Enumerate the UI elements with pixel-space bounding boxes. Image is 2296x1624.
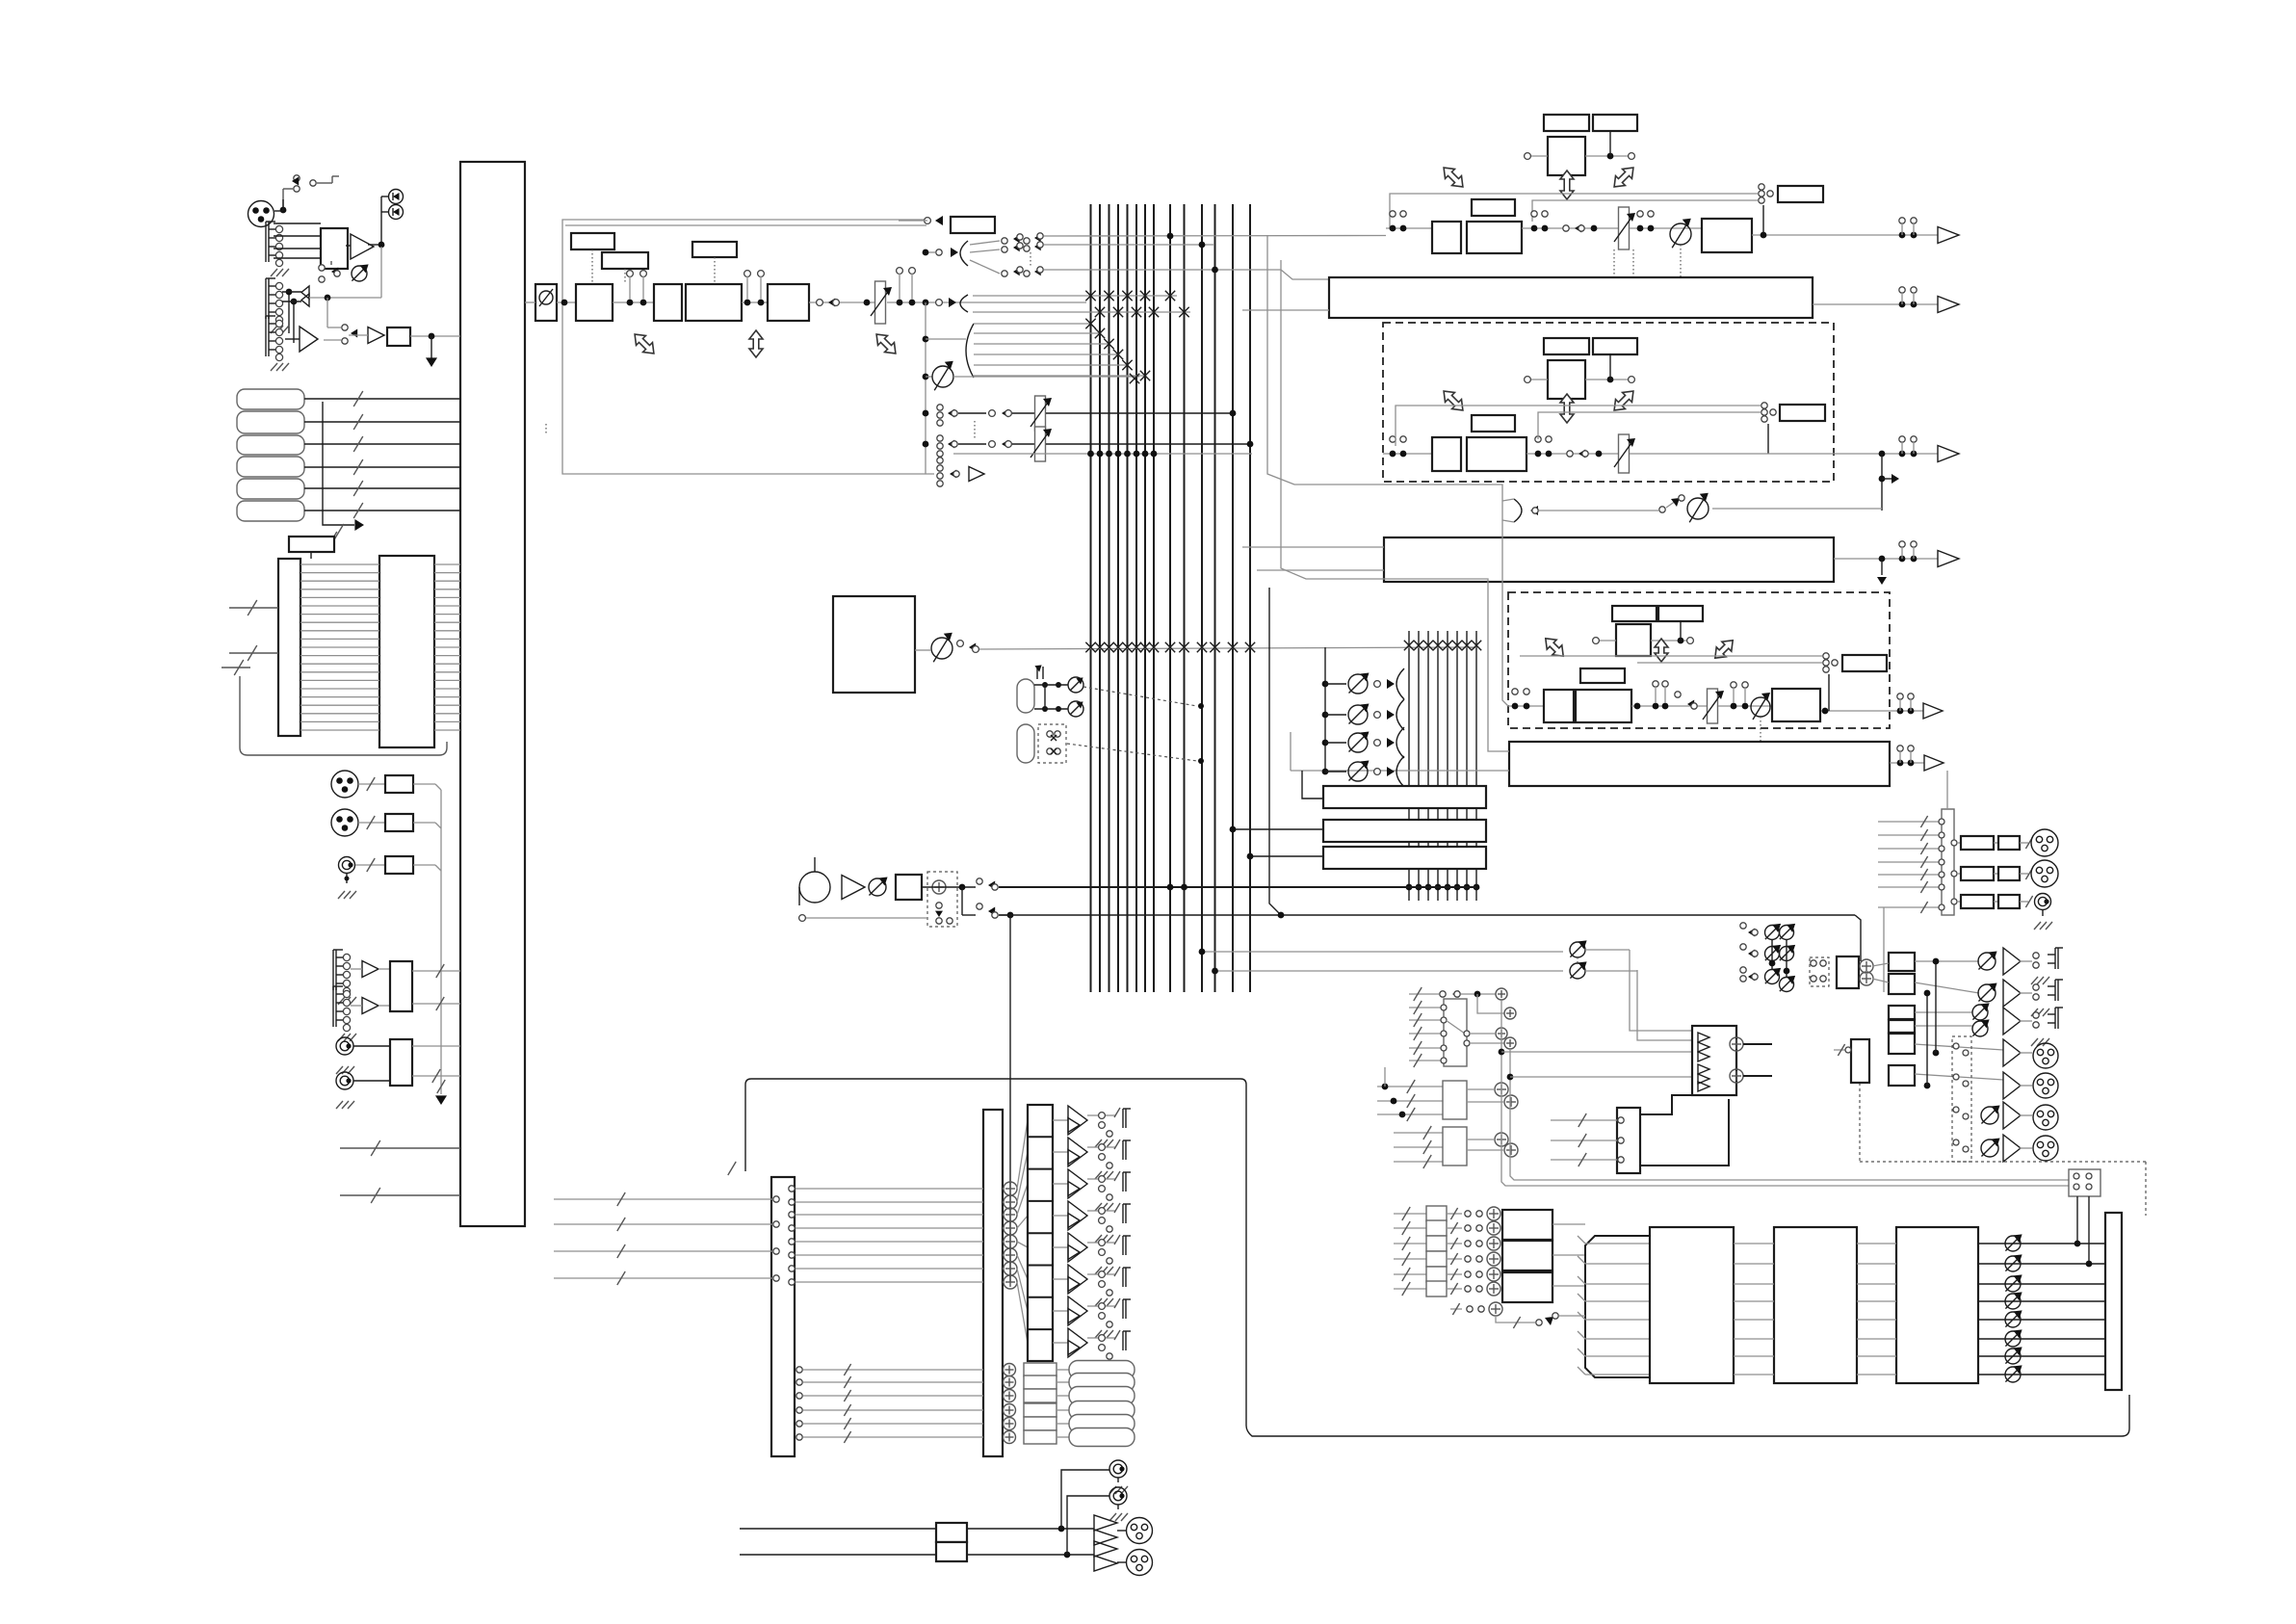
ST phase [1670, 219, 1691, 279]
box U12 (DYN) [768, 284, 809, 321]
talkback mic [799, 857, 830, 905]
box U11 (EQ) [686, 284, 742, 321]
chain c1 [613, 271, 654, 306]
ctrl out C [1972, 1003, 2063, 1046]
LB1 amp [1938, 297, 1959, 313]
tb switch2 [962, 887, 1013, 918]
box U3 (clock) [289, 537, 334, 559]
aes out row 3 [1951, 894, 2052, 930]
HA box U1 (head amp) [321, 228, 348, 269]
tb box U14 [896, 875, 922, 900]
tb dashed box [927, 872, 957, 927]
geq outputs [1978, 1234, 2105, 1382]
st out L [2003, 1039, 2058, 1068]
LB2 inputs [1242, 547, 1384, 570]
LB3 amp [1924, 755, 1944, 771]
LED D1 [381, 190, 404, 204]
mon knobs [1570, 940, 1692, 1040]
mon out R [1981, 1135, 2058, 1162]
aux trunk [1324, 647, 1326, 772]
box U7 [390, 1039, 412, 1086]
arrow to ground [426, 336, 437, 367]
ST post [1630, 211, 1702, 232]
matrix out wires [1743, 1044, 1772, 1076]
drv B [1094, 1541, 1153, 1576]
ellipsis dots [546, 421, 975, 438]
master meter taps [1390, 194, 1758, 228]
osc knob VR3 [915, 633, 1476, 663]
wrap path [728, 1079, 2129, 1436]
wire bundle U4-U5 and U5-bus [300, 564, 460, 730]
dbl arrow eq2 [749, 330, 763, 357]
channel frame [562, 220, 934, 474]
stadium M1 [1017, 679, 1034, 713]
chain c4 [887, 268, 1086, 307]
LB3 out [1890, 746, 1924, 767]
bus diagonal jogs [1267, 235, 1509, 751]
osc X crossings [1085, 641, 1481, 652]
up arrows [1034, 665, 1043, 679]
input jack J4 [266, 316, 289, 371]
DG2 chain [1508, 668, 1772, 723]
CS1 inputs [554, 1192, 779, 1285]
bus feed wire 471 [953, 451, 1252, 458]
slash wires into U4 [229, 600, 278, 661]
long box LB1 (ST bus) [1329, 277, 1813, 318]
gain knob VR1 [352, 264, 369, 281]
ST meter box [1759, 184, 1823, 235]
DG1 header [1439, 338, 1638, 423]
narrow box U18 [983, 1110, 1003, 1456]
tb bus dots [1167, 884, 1187, 891]
wire return top [565, 224, 926, 226]
DG1 chain [1383, 415, 1620, 471]
pan bracket [960, 295, 968, 312]
LED D2 [378, 196, 404, 248]
LB1 out [1813, 287, 1938, 308]
digital input modules (rounded blocks) [237, 389, 304, 521]
phase box U8 [525, 284, 576, 321]
box U9 (HPF) [576, 284, 613, 321]
label box B3 [692, 242, 737, 284]
aes down wire [1883, 907, 1885, 992]
DG2 out [1821, 694, 1923, 715]
tb knob [869, 877, 888, 896]
DG1 sub arrow [1879, 454, 1899, 511]
wires rounded blocks to bus [304, 391, 460, 518]
amp A3 [285, 327, 318, 352]
bus input wire A [340, 1140, 460, 1156]
geq switch box [2069, 1169, 2100, 1264]
aes strip CN3 [1942, 771, 1954, 915]
phones wires2 [967, 1526, 1094, 1559]
phase knob VR2 [926, 361, 1139, 391]
st out R [2003, 1072, 2058, 1099]
wires U7 to bus [412, 1046, 460, 1083]
sel out verticals [1499, 1001, 2088, 1186]
label box B2 [602, 252, 648, 284]
dashed link [1860, 1083, 2146, 1216]
big box U5 (ADC/DSP IF) [379, 556, 434, 747]
aux master row 4 [1322, 756, 1404, 787]
pan L wire [973, 291, 1177, 301]
DG2 phase [1751, 693, 1770, 742]
aes strip inputs [1878, 816, 1944, 913]
LB3 inputs [1291, 732, 1509, 771]
geq dots [2074, 1241, 2093, 1268]
ST out wire [1752, 218, 1938, 239]
wire HA out [346, 245, 381, 246]
stacked box SB2 [1230, 820, 1486, 842]
box U13 (OSC) [833, 596, 915, 693]
ctrl out B [1978, 980, 2063, 1016]
DG2 amp [1923, 703, 1943, 719]
DG1 amp [1938, 446, 1959, 462]
tb line2 [799, 915, 927, 922]
wire U2 to bus [410, 333, 460, 340]
GEQ input rows [1394, 1206, 1500, 1297]
mon dist boxes [1889, 953, 1915, 1086]
wires U6 to bus [412, 964, 460, 1010]
mix bus lines (14 vertical bus wires) [1091, 204, 1251, 992]
amp pair A2 [282, 286, 309, 306]
aux master row 2 [1322, 699, 1404, 730]
DG1 out [1630, 436, 1938, 458]
fader F1 [871, 281, 892, 324]
wrap wire (return path) [222, 660, 447, 755]
jack pair J6 [333, 986, 390, 1041]
RCA input J7 [336, 1037, 390, 1074]
DG2 header [1541, 606, 1737, 663]
aux bus group (8 vertical wires) [1406, 631, 1480, 901]
meter rows [796, 1361, 1135, 1447]
phones boxes [936, 1523, 967, 1561]
DG1 fader [1614, 434, 1635, 473]
stacked box SB1 [1302, 771, 1486, 808]
meter knob2 [1034, 685, 1083, 717]
aux send row y461 [937, 427, 1254, 461]
ST box U15 [1702, 219, 1752, 252]
connector strip CS1 [771, 1177, 795, 1456]
long box LB3 [1509, 742, 1890, 786]
GEQ io boxes [1502, 1210, 1585, 1302]
narrow box U4 (mux) [278, 559, 300, 736]
mon wires [1872, 961, 2003, 1080]
box U6 [390, 961, 412, 1011]
amp A1 [351, 234, 374, 259]
tb down trunk [1009, 915, 1011, 1282]
ST out amp [1938, 227, 1959, 244]
geq interconnect [1734, 1244, 1896, 1375]
aux fan wires [974, 319, 1150, 380]
dashed routes [1067, 687, 1204, 764]
switch S1 (pad) [280, 175, 339, 214]
box U2 (AD) [387, 327, 410, 346]
dbl arrow eq [630, 329, 659, 358]
bus input wire B [340, 1188, 460, 1203]
input jack J2 (line) [266, 222, 289, 276]
aux send row y429 [937, 396, 1237, 431]
aes out row 1 [1951, 829, 2058, 856]
meter knob1 [1034, 677, 1083, 693]
box U10 (ATT) [654, 284, 682, 321]
DG1 feedback [1502, 493, 1882, 523]
chain c3 [809, 299, 874, 307]
sw group top [1002, 233, 1386, 279]
pan R wire [973, 307, 1190, 317]
selector SEL2 [1377, 1067, 1518, 1121]
wire J3 to node [309, 247, 381, 327]
mon src switches [1740, 923, 1795, 992]
ST chain [1386, 199, 1620, 253]
aux fan brace [966, 324, 974, 378]
bus box (input patch/router vertical block) [460, 162, 525, 1226]
tb out [922, 878, 1476, 891]
dashed box DG1 [1383, 323, 1834, 482]
LB2 down arrow [1877, 559, 1887, 585]
jack pair J5 [333, 950, 390, 1005]
CS1 bus rows [789, 1182, 1017, 1289]
send bracket [926, 241, 1000, 274]
input jack J3 [266, 278, 289, 333]
stacked box SB3 [1247, 847, 1486, 869]
geq box G3 [1896, 1227, 1978, 1383]
mon box U19 [1834, 1039, 1869, 1083]
dashed sel box [1038, 724, 1066, 763]
geq box G1 [1650, 1227, 1734, 1383]
monitor tap [937, 458, 984, 486]
LB2 amp [1938, 551, 1959, 567]
dashed box DG2 [1508, 592, 1890, 728]
long box LB2 [1384, 537, 1834, 582]
label box B1 [571, 233, 614, 284]
selector SEL1 [1409, 987, 1516, 1067]
DG1 meter taps [1396, 403, 1825, 454]
out sel ladder [1924, 958, 1971, 1162]
fan to amps [1017, 1120, 1028, 1343]
RCA input J8 [336, 1072, 390, 1109]
rca out [1061, 1460, 1128, 1555]
phones wires [740, 1529, 936, 1555]
direct box B4 [899, 216, 995, 233]
stadium M2 [1017, 724, 1034, 763]
digital out connector row 1 [331, 771, 441, 798]
drv A [1094, 1515, 1153, 1545]
digital trunk down [435, 790, 447, 1105]
monitor out amps [1028, 1105, 1131, 1370]
geq link row [1450, 1302, 1585, 1328]
dbl arrow f [872, 329, 900, 358]
mon feed branch [1269, 588, 1284, 918]
beveled connector CN2 [1578, 1236, 1650, 1377]
chain c2 [742, 271, 768, 306]
switch S2 (insert) [319, 261, 340, 282]
mon out L [1981, 1102, 2058, 1130]
input XLR J1 [248, 199, 284, 227]
aes out row 2 [1951, 860, 2058, 887]
wires XLR/jack to HA [274, 223, 321, 258]
mon feed line [999, 915, 1861, 961]
fan feed [926, 338, 966, 340]
wire A1 down [289, 292, 294, 343]
trunk vertical [923, 249, 929, 474]
DG2 box U16 [1772, 689, 1820, 721]
LB1 inputs [1242, 309, 1329, 311]
mon sel [1810, 956, 1873, 988]
sel box U17 [1551, 1095, 1729, 1173]
digital out connector row 2 [331, 809, 441, 836]
geq box G2 [1774, 1227, 1857, 1383]
switch S3 [324, 325, 357, 344]
ctrl out A [1978, 948, 2063, 984]
selector SEL3 [1394, 1126, 1518, 1168]
aux master row 3 [1322, 727, 1404, 758]
digital out connector row 3 [338, 856, 441, 899]
amp A4 [349, 327, 384, 344]
amp in strip [2105, 1213, 2122, 1390]
ST header blocks [1439, 115, 1638, 199]
ST fader [1614, 207, 1635, 294]
tb amp [842, 876, 865, 900]
branch trunk with arrow [323, 402, 364, 547]
LB2 out [1834, 541, 1938, 563]
bus dots [1199, 949, 1563, 975]
aux master row 1 [1322, 668, 1404, 699]
DG2 meter [1520, 653, 1887, 711]
matrix box MX [1692, 1026, 1743, 1095]
